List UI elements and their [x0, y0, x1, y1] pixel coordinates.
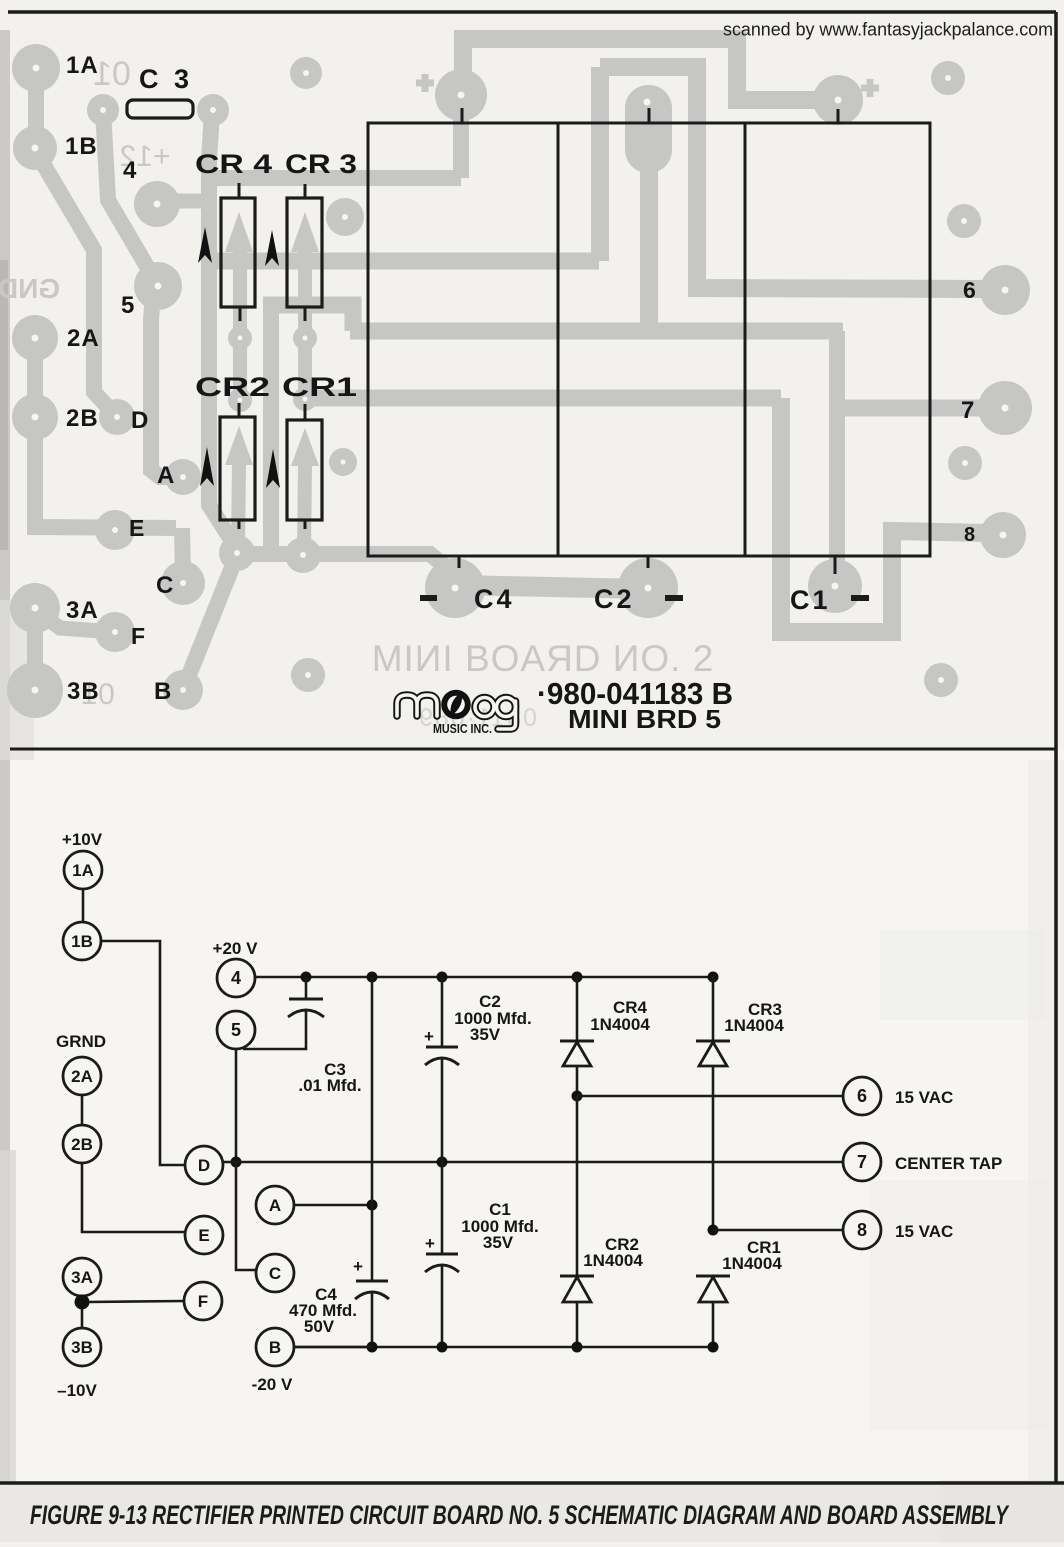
- svg-text:+20 V: +20 V: [213, 939, 259, 958]
- svg-text:+10V: +10V: [62, 830, 103, 849]
- svg-text:4: 4: [123, 157, 137, 184]
- svg-text:1N4004: 1N4004: [583, 1251, 643, 1270]
- trace H3 y554: [237, 554, 452, 572]
- wire 5 down to center tap: [235, 1049, 238, 1162]
- terminal 2A: [63, 1057, 101, 1095]
- svg-text:1N4004: 1N4004: [724, 1016, 784, 1035]
- diode CR4 silk triangle: [225, 212, 253, 252]
- svg-text:1A: 1A: [72, 861, 94, 880]
- svg-text:3A: 3A: [66, 597, 99, 624]
- trace band to pad 6: [600, 67, 985, 289]
- trace V3 down to C1 pad: [829, 331, 845, 570]
- terminal D: [185, 1146, 223, 1184]
- svg-text:D: D: [131, 407, 148, 434]
- mirrored ghost texts: [0, 55, 714, 732]
- svg-text:–10V: –10V: [57, 1381, 97, 1400]
- svg-text:C2: C2: [594, 584, 635, 614]
- svg-text:35V: 35V: [470, 1025, 501, 1044]
- terminal F: [184, 1282, 222, 1320]
- svg-text:8: 8: [857, 1220, 867, 1240]
- capacitor block outline C4 C2 C1: [368, 123, 930, 556]
- terminal A: [256, 1186, 294, 1224]
- svg-text:C: C: [156, 572, 173, 599]
- terminal 1B: [63, 922, 101, 960]
- diode CR3: [712, 977, 715, 1041]
- pads: [12, 44, 60, 92]
- trace V4 outer vertical: [591, 67, 609, 261]
- trace CR1 keyhole: [298, 338, 312, 399]
- svg-text:7: 7: [857, 1152, 867, 1172]
- wire CR4-CR2: [576, 1096, 579, 1276]
- diode CR1 outline: [287, 420, 322, 520]
- svg-text:5: 5: [121, 292, 134, 319]
- svg-text:C1: C1: [790, 585, 831, 615]
- diode CR2: [560, 1275, 594, 1278]
- wire bottom rail: [294, 1346, 713, 1349]
- svg-text:CENTER TAP: CENTER TAP: [895, 1154, 1002, 1173]
- diode CR2 outline: [220, 417, 255, 520]
- terminal 3A: [63, 1258, 101, 1296]
- trace B6 band y261: [208, 253, 599, 270]
- svg-text:A: A: [269, 1196, 281, 1215]
- terminal 3B: [63, 1328, 101, 1366]
- svg-text:5: 5: [231, 1020, 241, 1040]
- trace 3A to F pad: [38, 612, 115, 632]
- svg-text:7: 7: [961, 397, 974, 424]
- trace B5 top band to + pad right: [463, 39, 820, 100]
- caption separator line: [0, 1481, 1064, 1485]
- diode CR1 silk triangle: [291, 428, 319, 466]
- wire 2A-2B: [81, 1095, 84, 1125]
- trace B3 y331: [350, 323, 843, 340]
- trace riser P12 to H1: [453, 100, 469, 178]
- polarity arrow CR4: [198, 227, 212, 263]
- svg-text:15 VAC: 15 VAC: [895, 1222, 953, 1241]
- node top rail dots: [301, 972, 312, 983]
- terminal 8: [843, 1211, 881, 1249]
- svg-text:2B: 2B: [66, 405, 99, 432]
- svg-text:2B: 2B: [71, 1135, 93, 1154]
- polarity arrow CR1: [266, 449, 280, 488]
- svg-text:1B: 1B: [71, 932, 93, 951]
- node rail6 junction: [572, 1091, 583, 1102]
- trace V5 between CR2 CR1: [263, 305, 279, 548]
- svg-text:50V: 50V: [304, 1317, 335, 1336]
- trace pin4 stub: [160, 194, 211, 209]
- svg-text:GRND: GRND: [56, 1032, 106, 1051]
- trace CR4 tail: [233, 250, 247, 338]
- capacitor C3 outline: [127, 100, 193, 118]
- terminal 7: [843, 1143, 881, 1181]
- terminal B: [256, 1328, 294, 1366]
- wire center tap rail: [223, 1161, 843, 1164]
- svg-text:MIИI BOAЯD ИO. 2: MIИI BOAЯD ИO. 2: [372, 638, 715, 679]
- separator line pcb/schematic: [10, 748, 1056, 751]
- trace pad8 U path: [781, 398, 988, 632]
- diode CR3 silk triangle: [291, 212, 319, 252]
- cap block bottom leads: [459, 556, 835, 574]
- diode CR1: [696, 1275, 730, 1278]
- cap block top leads: [462, 108, 838, 123]
- polarity arrow CR2: [200, 447, 214, 486]
- svg-text:C 3: C 3: [139, 64, 193, 94]
- trace B pad diagonal: [183, 555, 237, 690]
- polarity arrow CR3: [265, 230, 279, 266]
- trace CR1 tail: [304, 464, 305, 552]
- trace 2A-2B chain down: [35, 338, 176, 528]
- trace B2 y398 CR1 top to pad8: [305, 390, 781, 407]
- svg-text:3A: 3A: [71, 1268, 93, 1287]
- node D junction: [231, 1157, 242, 1168]
- wire rail 8: [713, 1229, 843, 1232]
- wire top rail: [255, 976, 713, 979]
- diode CR3 outline: [287, 198, 322, 307]
- wire 2B to E: [82, 1163, 186, 1232]
- node rail8 junction: [708, 1225, 719, 1236]
- capacitor C1: [441, 1162, 444, 1254]
- svg-text:1N4004: 1N4004: [722, 1254, 782, 1273]
- svg-text:.01 Mfd.: .01 Mfd.: [298, 1076, 361, 1095]
- top border line: [8, 10, 1056, 14]
- svg-text:-20 V: -20 V: [252, 1375, 293, 1394]
- capacitor C2: [441, 977, 444, 1047]
- svg-text:CR2: CR2: [195, 372, 270, 402]
- diode CR4 outline: [221, 198, 255, 307]
- node 3A-3B junction: [75, 1295, 90, 1310]
- left scan edge strip: [0, 30, 10, 1482]
- terminal 5: [217, 1011, 255, 1049]
- svg-text:CR1: CR1: [282, 372, 357, 402]
- trace V1 pad4 down to B junction: [209, 112, 237, 549]
- capacitor C4 column: [371, 977, 374, 1281]
- svg-text:C4: C4: [474, 584, 515, 614]
- node bottom rail dots: [367, 1342, 378, 1353]
- svg-text:01: 01: [93, 55, 131, 93]
- svg-text:4: 4: [231, 968, 241, 988]
- svg-text:B: B: [154, 678, 171, 705]
- svg-text:E: E: [198, 1226, 209, 1245]
- trace B4 center tap to pad7: [837, 400, 990, 417]
- svg-text:scanned by www.fantasyjackpala: scanned by www.fantasyjackpalance.com: [723, 20, 1053, 40]
- svg-text:CR 3: CR 3: [285, 149, 357, 179]
- svg-text:1N4004: 1N4004: [590, 1015, 650, 1034]
- wire 1B to D: [101, 941, 185, 1165]
- wire A to column: [294, 1204, 372, 1207]
- node A junction: [367, 1200, 378, 1211]
- trace H1 horizontal y178: [209, 170, 461, 186]
- wire junction to F: [88, 1301, 184, 1302]
- trace CR3 tail: [298, 250, 312, 337]
- svg-text:35V: 35V: [483, 1233, 514, 1252]
- svg-text:3B: 3B: [71, 1338, 93, 1357]
- node C2 column on rail7: [437, 1157, 448, 1168]
- terminal E: [185, 1216, 223, 1254]
- terminal 6: [843, 1077, 881, 1115]
- pcb label minus C4: [420, 595, 437, 601]
- trace pad3 to pin5 pad: [103, 110, 156, 282]
- wire 1A-1B: [82, 889, 85, 922]
- svg-text:3B: 3B: [67, 678, 100, 705]
- terminal 4: [217, 959, 255, 997]
- svg-text:CR 4: CR 4: [195, 149, 272, 179]
- svg-text:2A: 2A: [71, 1067, 93, 1086]
- svg-text:6: 6: [963, 277, 976, 303]
- svg-text:1A: 1A: [66, 52, 99, 79]
- oblong pad C2 top: [625, 85, 672, 173]
- trace 3A-3B: [27, 608, 43, 690]
- svg-text:6: 6: [857, 1086, 867, 1106]
- terminal 1A: [64, 851, 102, 889]
- capacitor C3: [305, 977, 308, 999]
- svg-text:B: B: [269, 1338, 281, 1357]
- terminal C: [256, 1254, 294, 1292]
- trace S1 oblong stem: [640, 170, 658, 331]
- moog logo: [397, 690, 516, 736]
- svg-text:GND: GND: [0, 273, 60, 304]
- pad holes: [32, 65, 1009, 694]
- svg-text:E: E: [129, 515, 144, 541]
- plus sign gray right: [861, 79, 879, 97]
- svg-text:D: D: [198, 1156, 210, 1175]
- right border line: [1054, 12, 1058, 1482]
- svg-text:8: 8: [964, 524, 975, 546]
- svg-text:FIGURE 9-13 RECTIFIER PRINTED: FIGURE 9-13 RECTIFIER PRINTED CIRCUIT BO…: [30, 1500, 1010, 1530]
- svg-text:+: +: [353, 1257, 363, 1276]
- terminal 2B: [63, 1125, 101, 1163]
- trace 1A-1B: [28, 68, 44, 150]
- diode CR2 silk triangle: [225, 426, 253, 465]
- svg-text:MINI BRD 5: MINI BRD 5: [568, 704, 721, 734]
- wire B to rail: [294, 1346, 372, 1349]
- wire 3A-3B: [81, 1296, 84, 1328]
- svg-text:15 VAC: 15 VAC: [895, 1088, 953, 1107]
- svg-text:MUSIC INC.: MUSIC INC.: [433, 722, 492, 736]
- svg-text:F: F: [198, 1292, 208, 1311]
- trace bar C4-C2 pads: [455, 585, 648, 589]
- wire down to C: [236, 1162, 256, 1270]
- svg-text:2A: 2A: [67, 325, 100, 352]
- svg-text:+: +: [424, 1027, 434, 1046]
- svg-text:+: +: [425, 1234, 435, 1253]
- trace B7 y305: [263, 305, 353, 331]
- svg-text:C: C: [269, 1264, 281, 1283]
- svg-text:A: A: [157, 462, 174, 489]
- trace CR2 keyhole: [233, 338, 247, 400]
- svg-text:1B: 1B: [65, 133, 98, 160]
- trace pin5 pad to A pad: [151, 293, 183, 477]
- wire rail 6: [577, 1095, 843, 1098]
- trace stem to C pad: [182, 528, 183, 580]
- diode CR4: [576, 977, 579, 1041]
- trace 1B to D pad: [38, 155, 117, 417]
- plus sign gray left: [416, 74, 434, 92]
- svg-text:F: F: [131, 623, 145, 649]
- trace CR2 tail: [238, 463, 239, 548]
